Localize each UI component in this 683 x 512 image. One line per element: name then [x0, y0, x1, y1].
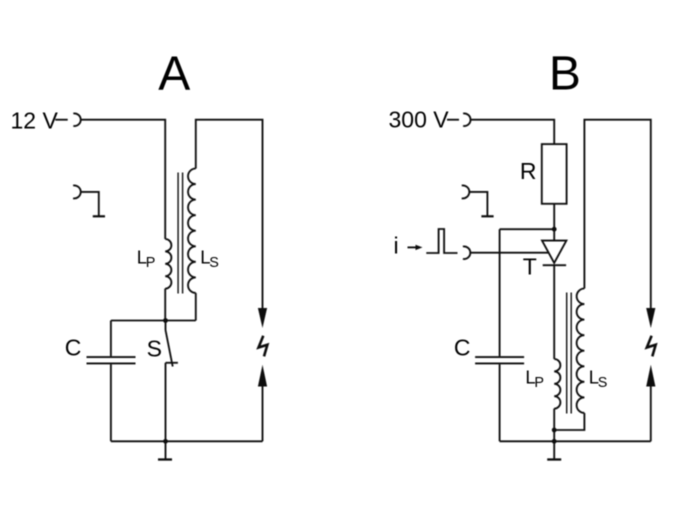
svg-text:C: C — [65, 334, 82, 360]
svg-text:S: S — [209, 255, 219, 271]
svg-text:12 V: 12 V — [11, 108, 59, 134]
svg-text:R: R — [520, 158, 537, 184]
svg-text:T: T — [523, 254, 537, 280]
svg-text:i: i — [394, 233, 399, 259]
svg-text:C: C — [454, 334, 471, 360]
svg-text:P: P — [146, 255, 156, 271]
svg-text:B: B — [549, 48, 581, 101]
svg-text:S: S — [147, 336, 162, 362]
svg-text:300 V: 300 V — [389, 107, 450, 133]
svg-text:P: P — [534, 375, 544, 391]
svg-text:S: S — [598, 375, 608, 391]
svg-text:A: A — [158, 48, 190, 101]
